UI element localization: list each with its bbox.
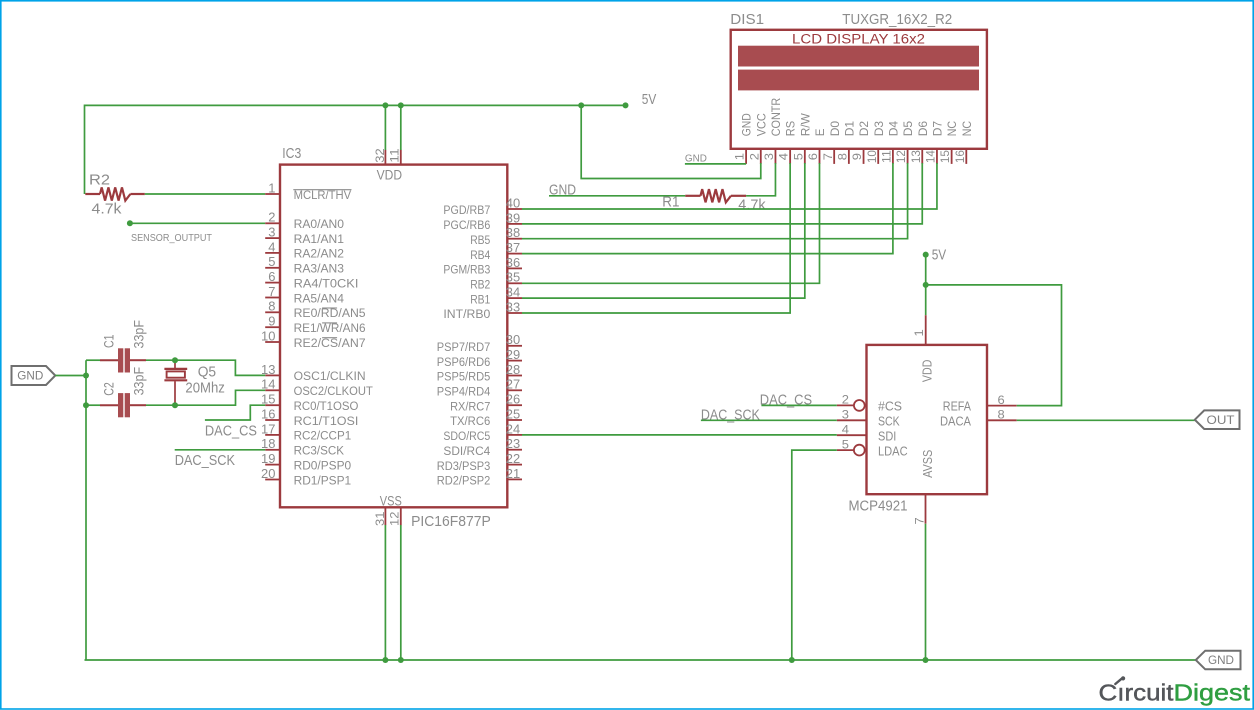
LCD pin 4 RS stub: [789, 149, 791, 164]
wire 5V down to junction: [925, 255, 927, 285]
svg-text:4: 4: [777, 153, 791, 160]
svg-text:D2: D2: [857, 121, 871, 137]
svg-text:10: 10: [261, 328, 275, 343]
svg-text:33pF: 33pF: [132, 320, 147, 349]
pin 33 INT/RB0 stub: [507, 312, 522, 314]
LCD display row bar 2: [738, 70, 979, 91]
svg-text:OSC1/CLKIN: OSC1/CLKIN: [294, 369, 366, 383]
svg-text:REFA: REFA: [943, 399, 972, 413]
pin 31 VSS stub: [384, 507, 386, 525]
wire 5V junction to VDD pin1: [925, 285, 927, 315]
svg-text:DAC_CS: DAC_CS: [205, 424, 257, 440]
svg-text:RB4: RB4: [470, 248, 490, 262]
svg-text:Q5: Q5: [198, 364, 216, 380]
pin 9 RE1/WR/AN6 stub: [265, 326, 280, 328]
pin 25 TX/RC6 stub: [507, 419, 522, 421]
node junction AVSS bottom: [923, 657, 929, 663]
wire left vertical ground rail: [85, 360, 87, 660]
pin 26 RX/RC7 stub: [507, 404, 522, 406]
svg-text:RA5/AN4: RA5/AN4: [294, 291, 345, 305]
svg-text:1: 1: [268, 180, 275, 195]
node junction C2 row: [83, 402, 89, 408]
svg-text:TX/RC6: TX/RC6: [450, 414, 490, 428]
wire LDAC to ground bus: [792, 450, 837, 660]
svg-text:RA4/T0CKI: RA4/T0CKI: [294, 276, 359, 290]
node junction crystal top: [172, 357, 178, 363]
svg-text:D6: D6: [916, 121, 930, 137]
svg-text:RA2/AN2: RA2/AN2: [294, 247, 345, 261]
svg-text:RC2/CCP1: RC2/CCP1: [294, 429, 352, 443]
svg-text:4.7k: 4.7k: [738, 197, 766, 213]
svg-text:DAC_CS: DAC_CS: [760, 392, 812, 408]
svg-text:VDD: VDD: [920, 360, 935, 383]
pin 24 SDO/RC5 stub: [507, 434, 522, 436]
svg-text:DIS1: DIS1: [730, 12, 764, 28]
svg-text:1: 1: [733, 153, 747, 160]
svg-text:40: 40: [506, 195, 520, 210]
svg-text:E: E: [813, 129, 827, 137]
output flag OUT: [1195, 410, 1240, 429]
svg-text:20Mhz: 20Mhz: [185, 381, 225, 397]
svg-text:20: 20: [261, 466, 275, 481]
svg-text:C2: C2: [101, 382, 116, 396]
LCD pin 6 E stub: [819, 149, 821, 164]
wire SENSOR_OUTPUT to RA0 pin2: [130, 222, 265, 224]
svg-text:30: 30: [506, 332, 520, 347]
svg-text:SENSOR_OUTPUT: SENSOR_OUTPUT: [131, 232, 212, 244]
wire VSS pin12 to ground bus: [400, 525, 402, 660]
pin 13 OSC1/CLKIN stub: [265, 374, 280, 376]
svg-text:4.7k: 4.7k: [92, 201, 123, 217]
svg-text:29: 29: [506, 347, 520, 362]
wire C2 to OSC2 pin14: [146, 390, 265, 405]
svg-text:DAC_SCK: DAC_SCK: [701, 408, 760, 424]
pin 1 MCLR/THV stub: [265, 193, 280, 195]
capacitor C1: [86, 348, 146, 372]
svg-text:16: 16: [953, 150, 967, 163]
svg-text:7: 7: [912, 517, 926, 524]
svg-text:32: 32: [373, 148, 387, 163]
wire DAC_CS to RC0 pin15: [205, 405, 265, 420]
svg-text:24: 24: [506, 421, 520, 436]
svg-text:3: 3: [842, 408, 849, 422]
wire R2 to MCLR pin1: [145, 193, 265, 195]
pin 7 RA5/AN4 stub: [265, 297, 280, 299]
svg-text:LDAC: LDAC: [878, 444, 908, 458]
svg-text:27: 27: [506, 377, 520, 392]
svg-text:DAC_SCK: DAC_SCK: [175, 453, 236, 469]
svg-text:INT/RB0: INT/RB0: [443, 307, 490, 321]
svg-text:VSS: VSS: [380, 492, 402, 508]
svg-text:D4: D4: [887, 121, 901, 137]
node junction VSS pin31 bottom: [382, 657, 388, 663]
svg-text:RC0/T1OSO: RC0/T1OSO: [294, 399, 359, 413]
pin 35 RB2 stub: [507, 282, 522, 284]
pin 37 RB4 stub: [507, 253, 522, 255]
wire R1 to LCD CONTR pin3: [746, 163, 775, 196]
pin 15 RC0/T1OSO stub: [265, 404, 280, 406]
node junction crystal bottom: [172, 402, 178, 408]
LCD pin 5 R/W stub: [804, 149, 806, 164]
wire DAC_SCK to RC3 pin18: [175, 449, 266, 451]
wire REFA to 5V: [926, 285, 1062, 406]
pin 6 RA4/T0CKI stub: [265, 282, 280, 284]
svg-text:4: 4: [268, 239, 275, 254]
svg-text:SCK: SCK: [878, 414, 900, 428]
svg-text:RB1: RB1: [470, 292, 490, 306]
svg-text:2: 2: [268, 210, 275, 225]
svg-text:TUXGR_16X2_R2: TUXGR_16X2_R2: [842, 12, 952, 28]
pin 29 PSP6/RD6 stub: [507, 360, 522, 362]
svg-text:RD0/PSP0: RD0/PSP0: [294, 458, 352, 472]
svg-text:NC: NC: [945, 121, 959, 137]
wire LCD D7 pin14 to PGD/RB7: [522, 163, 937, 209]
capacitor C2: [86, 393, 146, 417]
svg-text:22: 22: [506, 451, 520, 466]
svg-text:SDO/RC5: SDO/RC5: [443, 429, 490, 443]
ground flag right GND: [1196, 651, 1241, 670]
node junction GND flag: [83, 373, 89, 379]
svg-text:RC1/T1OSI: RC1/T1OSI: [294, 414, 359, 428]
svg-text:6: 6: [998, 393, 1005, 407]
svg-text:GND: GND: [1208, 655, 1234, 667]
svg-text:13: 13: [909, 150, 923, 163]
pin 22 RD3/PSP3 stub: [507, 464, 522, 466]
node junction VDD pin32: [382, 102, 388, 108]
wire bottom ground bus: [85, 659, 1196, 661]
LCD pin 9 D2 stub: [863, 149, 865, 164]
svg-text:RA1/AN1: RA1/AN1: [294, 232, 345, 246]
wire VDD pin11 to bus: [400, 105, 402, 150]
svg-text:11: 11: [387, 148, 401, 163]
pin 21 RD2/PSP2 stub: [507, 478, 522, 480]
wire LCD R/W pin5 to RB1: [522, 163, 805, 298]
svg-text:28: 28: [506, 362, 520, 377]
svg-text:GND: GND: [740, 113, 754, 136]
LCD pin 10 D3 stub: [877, 149, 879, 164]
svg-text:VCC: VCC: [754, 113, 768, 136]
svg-text:9: 9: [268, 314, 275, 329]
pin 6 REFA stub: [987, 405, 1017, 407]
svg-text:PGC/RB6: PGC/RB6: [443, 218, 490, 232]
svg-text:RB2: RB2: [470, 278, 490, 292]
wire GND to R1: [549, 195, 685, 197]
svg-text:36: 36: [506, 255, 520, 270]
svg-text:NC: NC: [960, 121, 974, 137]
LCD pin 11 D4 stub: [892, 149, 894, 164]
svg-text:19: 19: [261, 451, 275, 466]
svg-text:2: 2: [747, 153, 761, 160]
svg-text:PGD/RB7: PGD/RB7: [443, 203, 490, 217]
pin 3 SCK stub: [837, 419, 867, 421]
pin 32 VDD stub: [384, 150, 386, 165]
LCD pin 1 GND stub: [745, 149, 747, 164]
svg-text:PSP4/RD4: PSP4/RD4: [437, 385, 491, 399]
svg-text:D5: D5: [901, 121, 915, 137]
svg-text:R1: R1: [662, 195, 679, 211]
LCD display row bar 1: [738, 46, 979, 67]
svg-text:23: 23: [506, 436, 520, 451]
svg-text:CırcuitDigest: CırcuitDigest: [1099, 679, 1251, 705]
svg-text:C1: C1: [101, 335, 116, 349]
LCD pin 8 D1 stub: [848, 149, 850, 164]
svg-text:#CS: #CS: [878, 399, 902, 413]
svg-text:RD3/PSP3: RD3/PSP3: [437, 459, 491, 473]
svg-text:5: 5: [268, 254, 275, 269]
svg-text:2: 2: [842, 393, 849, 407]
node 5V bus end dot: [623, 102, 629, 108]
svg-text:GND: GND: [685, 152, 707, 164]
svg-text:5: 5: [842, 437, 849, 451]
svg-text:11: 11: [880, 150, 894, 163]
wire LCD GND pin1: [685, 163, 746, 165]
pin 3 RA1/AN1 stub: [265, 237, 280, 239]
svg-text:12: 12: [387, 511, 401, 526]
wire LCD D5 pin12 to RB5: [522, 163, 908, 239]
svg-text:R/W: R/W: [798, 113, 812, 137]
pin 8 DACA stub: [987, 419, 1017, 421]
svg-text:AVSS: AVSS: [920, 449, 935, 477]
svg-text:CONTR: CONTR: [769, 98, 783, 137]
svg-text:RS: RS: [784, 121, 798, 136]
IC U1 IC3 PIC16F877P body: [280, 165, 507, 508]
svg-text:PSP6/RD6: PSP6/RD6: [437, 355, 491, 369]
svg-text:DACA: DACA: [940, 414, 972, 428]
pin 8 RE0/RD/AN5 stub: [265, 311, 280, 313]
svg-text:25: 25: [506, 406, 520, 421]
crystal Q5: [164, 360, 187, 405]
svg-text:D3: D3: [872, 121, 886, 137]
node junction LCD VCC branch: [578, 102, 584, 108]
svg-text:LCD DISPLAY 16x2: LCD DISPLAY 16x2: [792, 32, 925, 47]
svg-text:6: 6: [268, 269, 275, 284]
wire SDO/RC5 to MCP SDI: [522, 434, 837, 436]
svg-text:8: 8: [835, 153, 849, 160]
svg-text:RX/RC7: RX/RC7: [450, 399, 490, 413]
wire LCD VCC pin2 to 5V bus: [581, 105, 761, 178]
svg-text:D1: D1: [842, 121, 856, 137]
pin 23 SDI/RC4 stub: [507, 449, 522, 451]
svg-text:38: 38: [506, 225, 520, 240]
pin 11 VDD stub: [400, 150, 402, 165]
power 5V terminal at MCP: [923, 252, 929, 258]
pin 38 RB5 stub: [507, 238, 522, 240]
svg-text:21: 21: [506, 466, 520, 481]
logo CircuitDigest: [1099, 676, 1251, 705]
pin 16 RC1/T1OSI stub: [265, 419, 280, 421]
svg-text:PGM/RB3: PGM/RB3: [443, 263, 490, 277]
svg-text:MCP4921: MCP4921: [849, 498, 908, 514]
pin 2 RA0/AN0 stub: [265, 222, 280, 224]
pin 40 PGD/RB7 stub: [507, 208, 522, 210]
svg-text:7: 7: [268, 284, 275, 299]
wire bus to R2 vertical: [84, 105, 86, 195]
svg-text:33pF: 33pF: [132, 367, 147, 396]
svg-text:RA0/AN0: RA0/AN0: [294, 217, 345, 231]
LCD pin 2 VCC stub: [760, 149, 762, 164]
svg-text:RB5: RB5: [470, 233, 490, 247]
LCD pin 13 D6 stub: [921, 149, 923, 164]
svg-text:3: 3: [762, 153, 776, 160]
pin 18 RC3/SCK stub: [265, 449, 280, 451]
svg-text:9: 9: [850, 153, 864, 160]
svg-text:7: 7: [821, 153, 835, 160]
svg-text:5V: 5V: [642, 92, 657, 108]
svg-text:34: 34: [506, 285, 520, 300]
svg-text:PSP5/RD5: PSP5/RD5: [437, 370, 491, 384]
pin 17 RC2/CCP1 stub: [265, 434, 280, 436]
node junction REFA branch: [923, 282, 929, 288]
wire LCD RS pin4 to INT/RB0: [522, 163, 790, 313]
svg-text:D0: D0: [828, 121, 842, 137]
pin 4 SDI stub: [837, 434, 867, 436]
LCD pin 15 NC stub: [951, 149, 953, 164]
pin 1 VDD MCP stub: [925, 315, 927, 345]
svg-text:35: 35: [506, 270, 520, 285]
wire GND flag to vertical: [55, 375, 86, 377]
wire C1 to OSC1 pin13: [146, 360, 265, 375]
svg-text:GND: GND: [17, 371, 43, 383]
svg-text:5: 5: [791, 153, 805, 160]
pin 5 LDAC stub with bubble: [837, 449, 854, 451]
svg-text:3: 3: [268, 225, 275, 240]
wire LCD D6 pin13 to PGC/RB6: [522, 163, 922, 224]
LCD pin 16 NC stub: [965, 149, 967, 164]
pin 30 PSP7/RD7 stub: [507, 345, 522, 347]
pin 10 RE2/CS/AN7 stub: [265, 341, 280, 343]
pin 7 AVSS stub: [925, 494, 927, 524]
svg-text:5V: 5V: [932, 248, 947, 264]
svg-text:8: 8: [998, 408, 1005, 422]
pin 27 PSP4/RD4 stub: [507, 389, 522, 391]
pin 34 RB1 stub: [507, 297, 522, 299]
svg-text:SDI: SDI: [878, 429, 896, 443]
pin 19 RD0/PSP0 stub: [265, 464, 280, 466]
wire 5V top bus: [85, 104, 626, 106]
LCD pin 7 D0 stub: [833, 149, 835, 164]
wire DAC_SCK to MCP SCK: [701, 419, 837, 421]
pin 39 PGC/RB6 stub: [507, 223, 522, 225]
pin 5 RA3/AN3 stub: [265, 267, 280, 269]
svg-text:1: 1: [912, 329, 926, 336]
ground flag left GND: [12, 366, 56, 385]
svg-text:6: 6: [806, 153, 820, 160]
wire DAC_CS to MCP #CS: [761, 404, 836, 406]
svg-text:VDD: VDD: [377, 166, 403, 182]
pin 12 VSS stub: [400, 507, 402, 525]
svg-text:16: 16: [261, 406, 275, 421]
svg-text:RC3/SCK: RC3/SCK: [294, 444, 345, 458]
LCD pin 12 D5 stub: [907, 149, 909, 164]
svg-text:17: 17: [261, 421, 275, 436]
svg-text:12: 12: [894, 150, 908, 163]
wire LCD D4 pin11 to RB4: [522, 163, 893, 254]
node junction VDD pin11: [398, 102, 404, 108]
pin 4 RA2/AN2 stub: [265, 252, 280, 254]
wire VDD pin32 to bus: [384, 105, 386, 150]
svg-text:RD2/PSP2: RD2/PSP2: [437, 474, 491, 488]
node junction LDAC bottom: [789, 657, 795, 663]
LCD display DIS1 body: [731, 30, 987, 149]
pin 36 PGM/RB3 stub: [507, 267, 522, 269]
wire AVSS to ground bus: [925, 524, 927, 660]
pin 20 RD1/PSP1 stub: [265, 479, 280, 481]
pin 28 PSP5/RD5 stub: [507, 375, 522, 377]
svg-text:PIC16F877P: PIC16F877P: [411, 514, 491, 530]
wire VSS pin31 to ground bus: [384, 525, 386, 660]
svg-text:OUT: OUT: [1207, 415, 1235, 427]
LCD pin 14 D7 stub: [936, 149, 938, 164]
IC U2 MCP4921 body: [867, 345, 988, 494]
svg-text:4: 4: [842, 422, 849, 436]
wire LCD E pin6 to RB2: [522, 163, 820, 283]
svg-text:37: 37: [506, 240, 520, 255]
resistor R2: [85, 193, 100, 195]
svg-text:10: 10: [865, 150, 879, 163]
svg-text:14: 14: [924, 150, 938, 163]
svg-text:IC3: IC3: [282, 146, 301, 162]
resistor R1: [685, 195, 700, 197]
svg-text:D7: D7: [931, 121, 945, 137]
svg-text:RA3/AN3: RA3/AN3: [294, 262, 345, 276]
svg-text:OSC2/CLKOUT: OSC2/CLKOUT: [294, 384, 374, 398]
pin 2 #CS stub with bubble: [837, 404, 854, 406]
svg-text:PSP7/RD7: PSP7/RD7: [437, 340, 491, 354]
node SENSOR_OUTPUT terminal dot: [127, 220, 133, 226]
svg-text:15: 15: [938, 150, 952, 163]
svg-text:33: 33: [506, 299, 520, 314]
svg-text:26: 26: [506, 392, 520, 407]
LCD pin 3 CONTR stub: [774, 149, 776, 164]
node junction VSS pin12 bottom: [398, 657, 404, 663]
svg-text:39: 39: [506, 210, 520, 225]
svg-text:R2: R2: [89, 173, 110, 189]
pin 14 OSC2/CLKOUT stub: [265, 389, 280, 391]
svg-text:31: 31: [373, 511, 387, 526]
svg-text:8: 8: [268, 299, 275, 314]
wire DACA to OUT flag: [1017, 419, 1195, 421]
svg-text:SDI/RC4: SDI/RC4: [443, 444, 490, 458]
svg-text:RD1/PSP1: RD1/PSP1: [294, 473, 352, 487]
